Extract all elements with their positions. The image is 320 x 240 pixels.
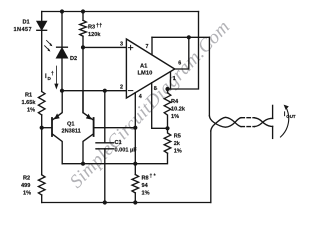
svg-text:10.2k: 10.2k — [171, 107, 186, 113]
node C1 bottom rail — [103, 200, 107, 204]
wire R2 bottom corner — [41, 195, 43, 203]
svg-text:R4: R4 — [171, 99, 179, 105]
node collectors join — [81, 162, 85, 166]
wire D1 top lead — [41, 12, 43, 22]
node R4 R5 pin8 — [165, 126, 169, 130]
Q1 left base wire — [42, 127, 52, 129]
node R8 rail — [133, 200, 137, 204]
wire bottom rail — [42, 202, 211, 204]
Q1 right base wire — [94, 127, 135, 129]
transistor Q1 left: emitter wire — [53, 91, 63, 120]
capacitor C1 — [96, 142, 114, 144]
svg-text:3: 3 — [120, 42, 123, 48]
svg-text:1%: 1% — [174, 149, 182, 155]
wire D2 top lead — [61, 12, 63, 48]
svg-text:6: 6 — [178, 61, 181, 67]
resistor R1 — [38, 92, 45, 115]
light arrow 1 — [47, 41, 52, 46]
svg-text:C1: C1 — [115, 140, 122, 146]
svg-text:R5: R5 — [174, 134, 181, 140]
svg-text:8: 8 — [154, 86, 157, 92]
svg-text:1.65k: 1.65k — [22, 100, 37, 106]
svg-text:1: 1 — [173, 76, 176, 82]
stub upper — [272, 105, 274, 118]
wire upper conductor down — [208, 37, 210, 116]
node D2 top — [60, 9, 64, 13]
svg-text:R1: R1 — [25, 93, 32, 99]
node feedback junction — [187, 35, 191, 39]
svg-text:1N457: 1N457 — [14, 27, 32, 33]
svg-text:OUT: OUT — [286, 114, 296, 119]
Q1 right emitter arrow — [86, 114, 92, 120]
wire pin 8 — [152, 83, 168, 129]
wire V+ descender to R4 node — [168, 12, 199, 90]
svg-text:A1: A1 — [140, 64, 148, 70]
svg-text:† *: † * — [150, 174, 156, 180]
Q1 left base bar — [51, 118, 53, 136]
svg-text:2k: 2k — [174, 141, 181, 147]
wire pin 6 output — [175, 37, 189, 69]
photodiode D2 — [57, 46, 68, 48]
wire output top line — [152, 36, 209, 38]
wire pin 7 riser — [151, 37, 153, 54]
wire pin 3 input — [83, 46, 126, 48]
svg-text:R8: R8 — [142, 176, 149, 182]
svg-text:1%: 1% — [171, 114, 179, 120]
svg-text:R2: R2 — [23, 176, 30, 182]
svg-text:D1: D1 — [23, 20, 30, 26]
light arrow 2 — [45, 46, 50, 51]
twisted pair left: wire A — [209, 116, 241, 127]
node base Q1 left — [40, 126, 44, 130]
node C1 top — [103, 89, 107, 93]
wire R8 bottom — [134, 193, 136, 203]
twisted pair right: wire A — [255, 118, 273, 127]
wire C1 top lead — [104, 91, 106, 143]
Q1 right collector — [83, 134, 93, 164]
transistor Q1 right: emitter wire — [83, 91, 93, 120]
resistor R8 — [132, 175, 139, 193]
wire pin 4 / R8 string — [134, 93, 136, 175]
svg-text:Q1: Q1 — [67, 122, 74, 128]
twisted pair dashed B — [241, 126, 255, 128]
svg-text:1%: 1% — [23, 191, 31, 197]
wire lower conductor up — [210, 131, 212, 203]
svg-text:†: † — [51, 71, 54, 77]
diode D1 — [37, 21, 47, 30]
stub lower — [272, 126, 274, 138]
wire C1 bottom lead — [104, 149, 106, 203]
wire collector line — [62, 153, 167, 164]
node R3 top — [81, 9, 85, 13]
svg-text:2: 2 — [120, 85, 123, 91]
svg-text:R3: R3 — [88, 25, 95, 31]
current arrow ID — [55, 66, 57, 85]
twisted pair right: wire B — [255, 118, 273, 126]
wire R3 top lead — [82, 12, 84, 21]
op-amp minus — [128, 90, 132, 92]
wire pin 1 — [170, 72, 172, 89]
op-amp plus — [128, 45, 132, 49]
wire D1 cathode to R1 — [41, 30, 43, 91]
svg-text:1%: 1% — [27, 108, 35, 114]
svg-text:2N3811: 2N3811 — [62, 129, 81, 135]
wire pin 2 input — [62, 90, 126, 92]
Q1 left collector — [53, 134, 63, 164]
wire top rail — [42, 11, 199, 13]
node pin4 R8 — [133, 162, 137, 166]
node R4 top — [165, 87, 169, 91]
Q1 left emitter arrow — [54, 113, 60, 119]
svg-text:7: 7 — [146, 44, 149, 50]
svg-text:499: 499 — [21, 183, 30, 189]
resistor R3 — [80, 20, 87, 36]
svg-text:D2: D2 — [70, 56, 77, 62]
svg-text:4: 4 — [139, 94, 142, 100]
svg-text:0.001 µF: 0.001 µF — [115, 148, 138, 154]
resistor R2 — [38, 175, 45, 195]
svg-text:LM10: LM10 — [138, 71, 153, 77]
Q1 right base bar — [93, 118, 95, 136]
resistor R4 — [164, 89, 171, 128]
node pin4 base — [133, 126, 137, 130]
twisted pair left: wire B — [211, 117, 241, 131]
node pin3 / R3 — [81, 45, 85, 49]
wire D2 anode lead — [61, 58, 63, 91]
svg-text:††: †† — [96, 23, 102, 29]
op-amp U1 triangle — [126, 39, 174, 98]
resistor R5 — [164, 128, 171, 153]
twisted pair dashed A — [241, 117, 255, 119]
wire R3 node down to Q1 right emitter — [82, 47, 84, 112]
node D2 anode / pin2 — [60, 89, 64, 93]
arrow IOUT — [281, 107, 289, 137]
svg-text:94: 94 — [142, 183, 149, 189]
wire R3 bottom to pin3 node — [82, 36, 84, 47]
svg-text:1%: 1% — [142, 191, 150, 197]
svg-text:120k: 120k — [88, 32, 101, 38]
wire R1 bottom to base node — [41, 115, 43, 175]
